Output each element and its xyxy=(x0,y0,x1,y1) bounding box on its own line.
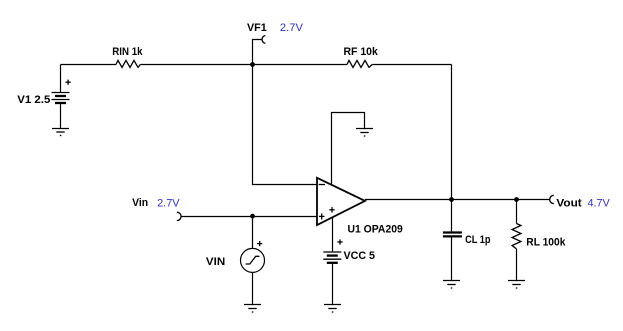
wire VF1 probe stub xyxy=(253,40,262,65)
node D junction dot xyxy=(514,197,519,202)
wire node C to CL xyxy=(451,200,453,232)
wire node D to RL xyxy=(516,200,518,224)
wire positive supply pin to VCC xyxy=(332,218,334,252)
source VIN circle xyxy=(241,248,265,272)
minus mark at inverting input xyxy=(319,184,325,186)
ground of VIN xyxy=(244,305,261,313)
battery V1 xyxy=(52,65,70,129)
svg-text:RF 10k: RF 10k xyxy=(344,46,379,58)
resistor RF xyxy=(347,60,372,67)
ground of RL xyxy=(508,281,525,289)
ground of VCC xyxy=(324,305,341,313)
wire top net from RF to right corner xyxy=(372,64,451,66)
wire RL to ground xyxy=(516,249,518,281)
svg-text:RL 100k: RL 100k xyxy=(526,236,566,248)
node B junction dot xyxy=(250,214,255,219)
svg-text:VCC 5: VCC 5 xyxy=(344,250,376,262)
op-amp U1 triangle xyxy=(317,178,365,225)
wire negative supply pin to ground xyxy=(332,113,365,186)
ground of CL xyxy=(443,281,460,289)
svg-text:4.7V: 4.7V xyxy=(588,198,611,210)
probe Vin xyxy=(177,212,181,220)
probe VF1 xyxy=(262,36,265,44)
svg-text:CL 1p: CL 1p xyxy=(465,234,491,246)
resistor RIN xyxy=(116,60,140,67)
svg-text:Vin: Vin xyxy=(132,197,148,209)
probe Vout xyxy=(550,195,554,203)
svg-text:2.7V: 2.7V xyxy=(280,22,304,34)
capacitor CL xyxy=(443,233,462,237)
svg-text:Vout: Vout xyxy=(556,198,582,210)
resistor RL xyxy=(512,224,521,249)
svg-text:RIN 1k: RIN 1k xyxy=(112,46,143,58)
ground of V1 xyxy=(52,129,69,136)
svg-text:2.7V: 2.7V xyxy=(157,198,180,210)
plus mark of V1 xyxy=(66,80,71,85)
battery VCC xyxy=(323,252,341,305)
node C junction dot xyxy=(449,197,454,202)
plus mark at non-inverting input xyxy=(319,213,325,219)
plus mark of VIN xyxy=(257,241,262,246)
ground of op-amp supply xyxy=(356,129,373,137)
wire top net from V1 through RIN to node xyxy=(61,64,348,66)
wire node to inverting input xyxy=(253,65,318,185)
node A junction dot xyxy=(250,62,255,67)
wire output net xyxy=(365,199,550,201)
wire CL to ground xyxy=(451,238,453,281)
svg-text:VIN: VIN xyxy=(206,256,225,268)
plus mark of VCC xyxy=(337,239,342,244)
plus mark at positive supply pin xyxy=(329,207,334,213)
wire right vertical from RF down to output node xyxy=(451,65,453,200)
wire Vin probe to non-inverting input xyxy=(181,216,317,218)
wire node B down to VIN source xyxy=(252,217,254,249)
svg-text:V1 2.5: V1 2.5 xyxy=(17,94,50,106)
ramp waveform inside VIN xyxy=(246,256,260,264)
svg-text:VF1: VF1 xyxy=(247,22,267,34)
svg-text:U1 OPA209: U1 OPA209 xyxy=(348,224,403,236)
wire VIN source to ground xyxy=(252,272,254,304)
